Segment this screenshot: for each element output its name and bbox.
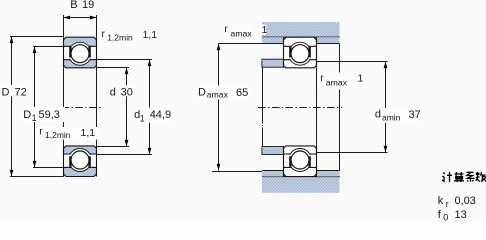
svg-text:D: D [23, 109, 31, 121]
housing left shoulder [262, 37, 284, 43]
svg-text:amax: amax [207, 90, 229, 100]
dimension Damax: line [218, 44, 220, 171]
svg-text:13: 13 [455, 209, 467, 221]
svg-text:72: 72 [15, 86, 27, 98]
dimension d: extension lines [97, 68, 130, 147]
svg-text:d: d [110, 86, 116, 98]
dimension damin: line [385, 62, 387, 153]
svg-text:0,03: 0,03 [455, 195, 476, 207]
dimension damin: extension lines [317, 62, 388, 153]
dimension B: extension lines [64, 15, 97, 37]
dimension B: arrows [64, 16, 97, 20]
housing right shoulder [317, 37, 340, 43]
dimension Damax: arrows [217, 44, 221, 171]
dimension d: arrows [125, 68, 129, 147]
dimension d1: extension lines [97, 60, 153, 155]
label d 30 [109, 85, 135, 98]
left bearing upper section [64, 37, 97, 68]
housing bore line bottom [262, 176, 340, 178]
label D1 59,3 [22, 107, 65, 123]
svg-text:59,3: 59,3 [39, 109, 60, 121]
svg-text:1,1: 1,1 [81, 127, 96, 139]
label d1 44,9 [133, 108, 175, 124]
svg-text:37: 37 [409, 109, 421, 121]
dimension D: extension lines [10, 37, 64, 177]
svg-text:0: 0 [443, 213, 448, 223]
svg-text:30: 30 [121, 86, 133, 98]
svg-text:1: 1 [262, 24, 268, 36]
label kr 0,03 [438, 195, 476, 209]
svg-text:r: r [446, 199, 449, 209]
right bearing lower section (mirror) [284, 146, 317, 177]
housing bore line [262, 36, 340, 38]
svg-text:1: 1 [358, 72, 364, 84]
dimension D1: line [34, 47, 36, 168]
label ramax 1 middle [319, 72, 364, 89]
left bearing lower section (mirror) [64, 146, 97, 177]
svg-text:1: 1 [32, 113, 37, 123]
housing bottom left shoulder [262, 170, 284, 176]
centerline right view [258, 107, 342, 109]
svg-text:1,2min: 1,2min [107, 32, 133, 42]
shaft silhouette line [316, 68, 318, 146]
数 (cut at right edge) [476, 172, 486, 182]
dimension d1: line [149, 60, 151, 155]
label D 72 [0, 85, 29, 98]
svg-text:amax: amax [230, 28, 252, 38]
svg-text:amax: amax [326, 78, 348, 88]
dimension d1: arrows [148, 60, 152, 155]
shaft shoulder top [262, 59, 284, 67]
dimension D1: extension lines [33, 47, 64, 168]
svg-text:D: D [198, 86, 206, 98]
svg-text:65: 65 [236, 87, 248, 99]
right bearing upper section [284, 37, 317, 68]
系 [467, 172, 475, 182]
label r1,2min 1,1 upper [100, 29, 157, 42]
dimension D: line [11, 37, 13, 177]
svg-text:1,1: 1,1 [143, 29, 158, 41]
label f0 13 [438, 209, 467, 223]
svg-text:1,2min: 1,2min [45, 130, 71, 140]
housing top band [262, 22, 340, 37]
dimension Damax: extension/leader lines [212, 44, 262, 172]
label Damax 65 [196, 86, 250, 100]
housing bottom right shoulder [317, 170, 340, 176]
dimension D1: arrows [33, 47, 37, 168]
dimension D: arrows [10, 37, 14, 177]
label r1,2min 1,1 lower [38, 127, 99, 140]
计算系数 (calculation factors, hand-drawn strokes) [442, 172, 486, 182]
label ramax 1 top [223, 24, 253, 38]
svg-text:amin: amin [382, 113, 401, 123]
label B 19 [69, 0, 96, 11]
shaft shoulder silhouette line [262, 67, 264, 146]
svg-text:k: k [438, 195, 444, 207]
dimension damin: arrows [384, 62, 388, 153]
housing bottom shoulder faces [262, 170, 340, 172]
svg-text:D: D [2, 86, 10, 98]
dimension B: line [64, 17, 97, 19]
svg-text:B: B [70, 0, 77, 11]
housing shoulder faces [262, 43, 340, 45]
svg-text:19: 19 [82, 0, 94, 11]
算 [454, 172, 464, 182]
svg-text:1: 1 [140, 113, 145, 123]
计 [442, 172, 452, 182]
label damin 37 [374, 108, 422, 123]
centerline left view [62, 107, 102, 109]
housing right cut edge [339, 44, 341, 171]
svg-text:d: d [375, 109, 381, 121]
bore silhouette lines [64, 68, 97, 146]
dimension d: line [126, 68, 128, 147]
svg-text:44,9: 44,9 [150, 109, 171, 121]
housing bottom band [262, 177, 340, 193]
shaft shoulder bottom [262, 147, 284, 155]
